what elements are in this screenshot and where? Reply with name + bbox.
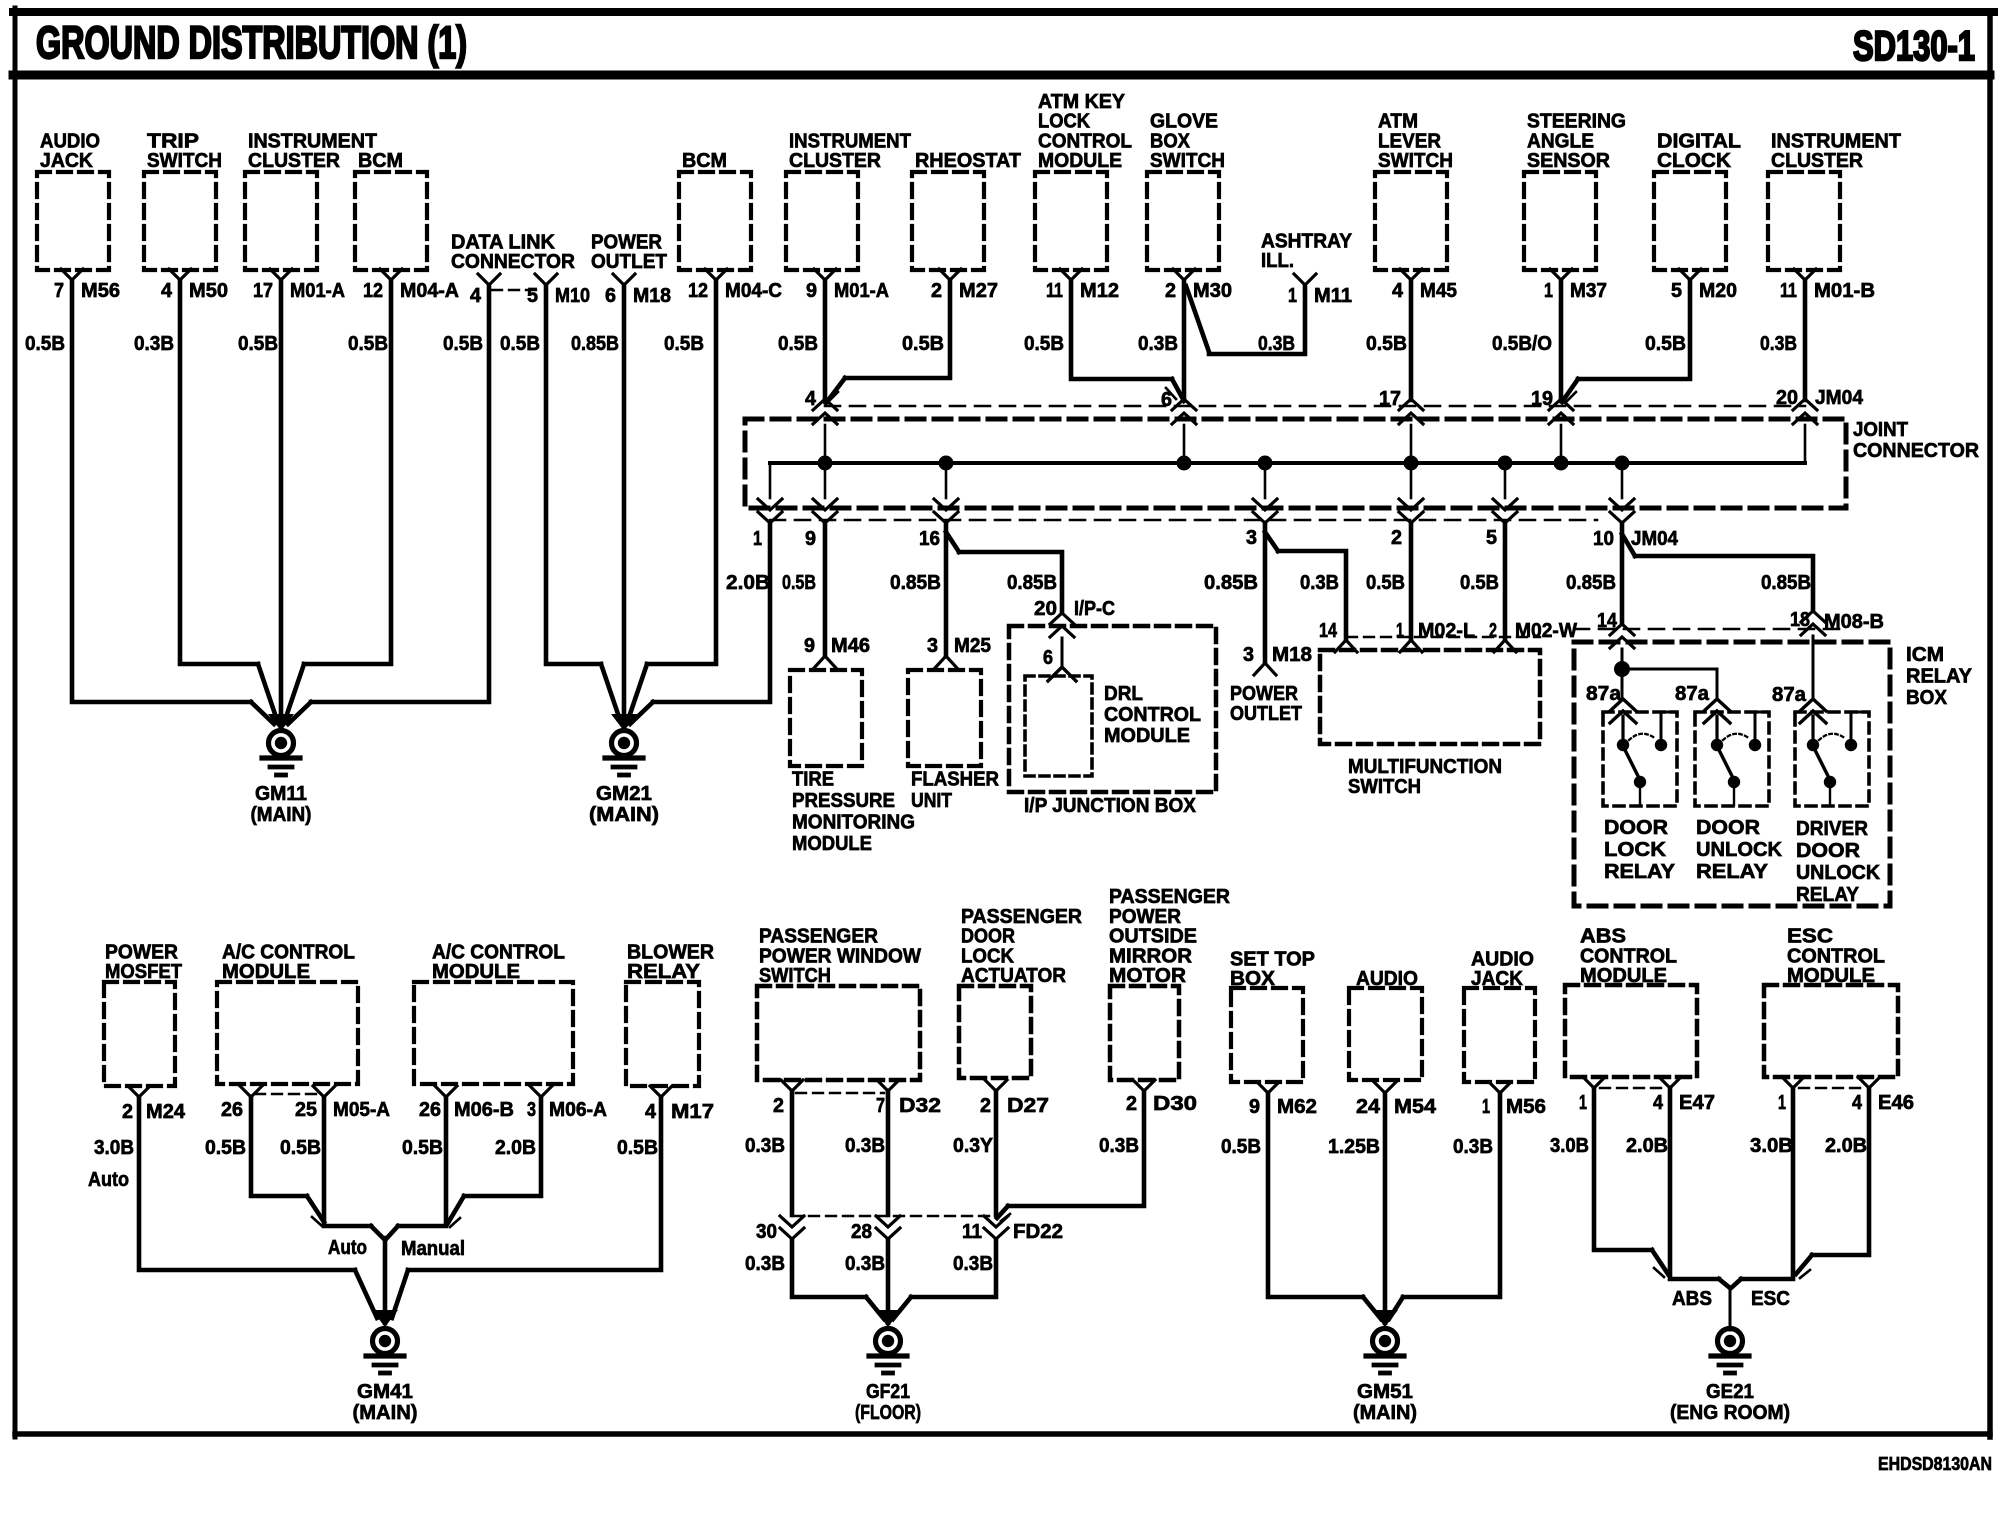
svg-text:4: 4 xyxy=(1852,1091,1863,1114)
svg-text:RHEOSTAT: RHEOSTAT xyxy=(915,149,1021,172)
svg-text:CONNECTOR: CONNECTOR xyxy=(451,250,575,273)
svg-text:9: 9 xyxy=(1249,1095,1260,1118)
svg-text:JM04: JM04 xyxy=(1815,386,1864,409)
svg-text:DOOR: DOOR xyxy=(1604,816,1668,839)
svg-text:M18: M18 xyxy=(1272,643,1312,666)
svg-text:RELAY: RELAY xyxy=(627,960,700,983)
svg-text:BCM: BCM xyxy=(682,149,727,172)
svg-text:M27: M27 xyxy=(959,279,998,302)
svg-text:Auto: Auto xyxy=(328,1236,367,1259)
svg-text:ILL.: ILL. xyxy=(1261,249,1294,272)
svg-text:M37: M37 xyxy=(1570,279,1607,302)
svg-text:ICM: ICM xyxy=(1906,643,1944,666)
svg-text:CLUSTER: CLUSTER xyxy=(789,149,881,172)
svg-text:7: 7 xyxy=(54,279,64,302)
svg-text:0.5B: 0.5B xyxy=(1024,332,1064,355)
svg-text:26: 26 xyxy=(419,1098,441,1121)
svg-text:7: 7 xyxy=(876,1094,885,1117)
svg-text:1: 1 xyxy=(1579,1091,1587,1114)
svg-text:0.5B: 0.5B xyxy=(617,1136,658,1159)
svg-text:UNLOCK: UNLOCK xyxy=(1796,861,1880,884)
svg-text:BCM: BCM xyxy=(358,149,403,172)
svg-text:RELAY: RELAY xyxy=(1696,860,1768,883)
svg-text:20: 20 xyxy=(1776,386,1798,409)
svg-text:(MAIN): (MAIN) xyxy=(251,803,312,826)
svg-text:RELAY: RELAY xyxy=(1906,665,1972,688)
svg-text:0.3B: 0.3B xyxy=(1300,571,1339,594)
svg-text:0.3B: 0.3B xyxy=(845,1252,885,1275)
svg-text:4: 4 xyxy=(1653,1091,1664,1114)
svg-text:M02-L: M02-L xyxy=(1418,619,1475,642)
svg-text:JACK: JACK xyxy=(1471,967,1523,990)
svg-text:0.5B: 0.5B xyxy=(1366,571,1405,594)
svg-text:87a: 87a xyxy=(1586,682,1622,705)
svg-text:1: 1 xyxy=(753,527,762,550)
svg-text:E47: E47 xyxy=(1679,1091,1715,1114)
svg-text:M02-W: M02-W xyxy=(1515,619,1578,642)
svg-text:87a: 87a xyxy=(1675,682,1710,705)
svg-text:2.0B: 2.0B xyxy=(1825,1134,1867,1157)
svg-text:0.5B: 0.5B xyxy=(402,1136,443,1159)
svg-text:M06-A: M06-A xyxy=(549,1098,607,1121)
svg-text:0.85B: 0.85B xyxy=(1761,571,1811,594)
svg-text:M24: M24 xyxy=(146,1100,186,1123)
svg-text:SENSOR: SENSOR xyxy=(1527,149,1610,172)
svg-text:0.85B: 0.85B xyxy=(571,332,619,355)
svg-text:0.5B: 0.5B xyxy=(25,332,65,355)
svg-text:CONNECTOR: CONNECTOR xyxy=(1853,439,1979,462)
svg-text:0.5B: 0.5B xyxy=(238,332,278,355)
svg-text:3.0B: 3.0B xyxy=(1750,1134,1793,1157)
svg-text:ACTUATOR: ACTUATOR xyxy=(961,964,1066,987)
svg-text:9: 9 xyxy=(804,634,815,657)
svg-text:SWITCH: SWITCH xyxy=(759,964,831,987)
svg-text:I/P-C: I/P-C xyxy=(1074,597,1115,620)
svg-text:0.5B: 0.5B xyxy=(443,332,483,355)
svg-text:MODULE: MODULE xyxy=(1038,149,1122,172)
svg-text:M45: M45 xyxy=(1420,279,1457,302)
svg-text:12: 12 xyxy=(363,279,383,302)
svg-text:2: 2 xyxy=(1165,279,1176,302)
svg-text:10: 10 xyxy=(1593,527,1614,550)
svg-text:FLASHER: FLASHER xyxy=(911,768,999,791)
svg-text:2: 2 xyxy=(1489,619,1497,642)
svg-text:2.0B: 2.0B xyxy=(1626,1134,1668,1157)
svg-text:0.85B: 0.85B xyxy=(890,571,941,594)
svg-text:Manual: Manual xyxy=(401,1237,465,1260)
svg-text:GROUND DISTRIBUTION (1): GROUND DISTRIBUTION (1) xyxy=(36,17,467,68)
svg-text:MODULE: MODULE xyxy=(1580,964,1667,987)
svg-text:5: 5 xyxy=(1486,526,1497,549)
svg-text:E46: E46 xyxy=(1878,1091,1914,1114)
svg-text:D32: D32 xyxy=(899,1094,941,1117)
svg-text:ABS: ABS xyxy=(1672,1287,1712,1310)
svg-text:1.25B: 1.25B xyxy=(1328,1135,1380,1158)
svg-text:0.3B: 0.3B xyxy=(1760,332,1797,355)
svg-text:0.85B: 0.85B xyxy=(1566,571,1616,594)
svg-text:M01-A: M01-A xyxy=(834,279,889,302)
svg-text:14: 14 xyxy=(1319,619,1337,642)
svg-text:M06-B: M06-B xyxy=(454,1098,514,1121)
svg-text:M18: M18 xyxy=(633,284,671,307)
svg-text:1: 1 xyxy=(1482,1095,1490,1118)
svg-text:M56: M56 xyxy=(81,279,120,302)
svg-text:FD22: FD22 xyxy=(1013,1220,1063,1243)
svg-text:1: 1 xyxy=(1288,284,1297,307)
svg-text:0.5B: 0.5B xyxy=(1221,1135,1261,1158)
svg-text:5: 5 xyxy=(527,284,538,307)
svg-text:DRIVER: DRIVER xyxy=(1796,817,1868,840)
svg-text:6: 6 xyxy=(605,284,616,307)
svg-text:DOOR: DOOR xyxy=(1696,816,1760,839)
svg-text:3: 3 xyxy=(1243,643,1254,666)
svg-text:GM51: GM51 xyxy=(1357,1380,1413,1403)
svg-text:M11: M11 xyxy=(1314,284,1352,307)
svg-text:M05-A: M05-A xyxy=(333,1098,390,1121)
svg-text:JM04: JM04 xyxy=(1631,527,1679,550)
svg-text:0.3B: 0.3B xyxy=(134,332,174,355)
svg-text:87a: 87a xyxy=(1772,683,1807,706)
svg-text:0.3B: 0.3B xyxy=(1138,332,1178,355)
svg-text:3.0B: 3.0B xyxy=(1550,1134,1589,1157)
svg-text:AUDIO: AUDIO xyxy=(1356,967,1418,990)
svg-text:1: 1 xyxy=(1544,279,1553,302)
svg-text:0.5B: 0.5B xyxy=(348,332,388,355)
svg-text:DRL: DRL xyxy=(1104,682,1143,705)
svg-text:0.85B: 0.85B xyxy=(1204,571,1258,594)
svg-text:SWITCH: SWITCH xyxy=(147,149,222,172)
svg-text:(MAIN): (MAIN) xyxy=(1353,1401,1417,1424)
svg-text:0.5B: 0.5B xyxy=(1645,332,1686,355)
svg-text:11: 11 xyxy=(1780,279,1797,302)
svg-text:2: 2 xyxy=(1126,1092,1137,1115)
svg-text:MONITORING: MONITORING xyxy=(792,811,915,834)
svg-text:M04-C: M04-C xyxy=(725,279,782,302)
svg-text:4: 4 xyxy=(470,284,482,307)
svg-text:M56: M56 xyxy=(1506,1095,1546,1118)
svg-text:(ENG ROOM): (ENG ROOM) xyxy=(1670,1401,1790,1424)
svg-text:2.0B: 2.0B xyxy=(495,1136,536,1159)
svg-text:19: 19 xyxy=(1531,387,1553,410)
svg-text:SWITCH: SWITCH xyxy=(1150,149,1225,172)
svg-text:ESC: ESC xyxy=(1751,1287,1790,1310)
svg-text:0.5B: 0.5B xyxy=(280,1136,321,1159)
svg-text:OUTLET: OUTLET xyxy=(591,250,667,273)
svg-text:RELAY: RELAY xyxy=(1796,883,1859,906)
svg-text:MODULE: MODULE xyxy=(432,960,520,983)
svg-text:5: 5 xyxy=(1671,279,1682,302)
svg-text:GM11: GM11 xyxy=(255,782,307,805)
svg-text:6: 6 xyxy=(1161,388,1172,411)
svg-text:2: 2 xyxy=(931,279,942,302)
svg-text:CLUSTER: CLUSTER xyxy=(1771,149,1863,172)
svg-text:M25: M25 xyxy=(954,634,991,657)
svg-text:3: 3 xyxy=(527,1098,536,1121)
svg-text:9: 9 xyxy=(805,527,816,550)
svg-text:M62: M62 xyxy=(1277,1095,1317,1118)
svg-text:MOSFET: MOSFET xyxy=(105,960,182,983)
svg-text:28: 28 xyxy=(851,1220,872,1243)
svg-text:MODULE: MODULE xyxy=(792,832,872,855)
svg-text:9: 9 xyxy=(806,279,817,302)
svg-text:2.0B: 2.0B xyxy=(726,571,770,594)
svg-text:11: 11 xyxy=(962,1220,982,1243)
svg-text:M12: M12 xyxy=(1080,279,1119,302)
svg-text:1: 1 xyxy=(1778,1091,1786,1114)
svg-text:0.5B: 0.5B xyxy=(664,332,704,355)
svg-text:0.3Y: 0.3Y xyxy=(953,1134,993,1157)
svg-text:UNIT: UNIT xyxy=(911,789,952,812)
svg-text:(MAIN): (MAIN) xyxy=(353,1401,418,1424)
svg-text:M01-A: M01-A xyxy=(290,279,345,302)
svg-text:4: 4 xyxy=(805,387,817,410)
svg-text:0.5B: 0.5B xyxy=(902,332,944,355)
svg-text:0.5B: 0.5B xyxy=(782,571,816,594)
svg-text:GM21: GM21 xyxy=(596,782,652,805)
svg-text:SWITCH: SWITCH xyxy=(1378,149,1453,172)
svg-text:DOOR: DOOR xyxy=(1796,839,1860,862)
svg-text:0.3B: 0.3B xyxy=(1258,332,1295,355)
svg-text:0.3B: 0.3B xyxy=(1099,1134,1139,1157)
svg-text:SD130-1: SD130-1 xyxy=(1853,22,1975,69)
svg-text:GM41: GM41 xyxy=(357,1380,413,1403)
svg-text:0.3B: 0.3B xyxy=(745,1134,785,1157)
svg-text:1: 1 xyxy=(1396,619,1404,642)
svg-text:BOX: BOX xyxy=(1230,967,1275,990)
svg-text:0.5B: 0.5B xyxy=(1460,571,1499,594)
svg-text:0.5B: 0.5B xyxy=(500,332,540,355)
svg-text:M54: M54 xyxy=(1394,1095,1437,1118)
svg-text:16: 16 xyxy=(919,527,940,550)
svg-text:UNLOCK: UNLOCK xyxy=(1696,838,1782,861)
svg-text:MODULE: MODULE xyxy=(1104,724,1190,747)
svg-text:26: 26 xyxy=(221,1098,243,1121)
svg-text:30: 30 xyxy=(756,1220,777,1243)
svg-text:11: 11 xyxy=(1046,279,1063,302)
svg-text:LOCK: LOCK xyxy=(1604,838,1666,861)
svg-text:4: 4 xyxy=(161,279,173,302)
svg-text:OUTLET: OUTLET xyxy=(1230,702,1302,725)
svg-text:20: 20 xyxy=(1034,597,1057,620)
svg-text:JOINT: JOINT xyxy=(1853,418,1908,441)
svg-text:MODULE: MODULE xyxy=(222,960,310,983)
svg-text:M04-A: M04-A xyxy=(400,279,459,302)
svg-text:4: 4 xyxy=(645,1100,657,1123)
svg-text:2: 2 xyxy=(980,1094,991,1117)
svg-text:SWITCH: SWITCH xyxy=(1348,775,1421,798)
svg-text:3: 3 xyxy=(1246,526,1257,549)
svg-text:0.3B: 0.3B xyxy=(953,1252,993,1275)
svg-text:0.3B: 0.3B xyxy=(1453,1135,1493,1158)
svg-text:17: 17 xyxy=(253,279,273,302)
svg-text:24: 24 xyxy=(1356,1095,1381,1118)
svg-text:EHDSD8130AN: EHDSD8130AN xyxy=(1878,1454,1992,1474)
svg-text:25: 25 xyxy=(295,1098,317,1121)
svg-text:PRESSURE: PRESSURE xyxy=(792,789,895,812)
svg-text:D27: D27 xyxy=(1007,1094,1049,1117)
svg-text:CLOCK: CLOCK xyxy=(1657,149,1731,172)
svg-text:0.5B: 0.5B xyxy=(1366,332,1407,355)
svg-text:2: 2 xyxy=(122,1100,133,1123)
svg-text:M46: M46 xyxy=(831,634,870,657)
svg-text:MOTOR: MOTOR xyxy=(1109,964,1186,987)
svg-text:17: 17 xyxy=(1379,387,1401,410)
svg-text:D30: D30 xyxy=(1153,1092,1197,1115)
svg-text:(MAIN): (MAIN) xyxy=(589,803,659,826)
svg-text:0.85B: 0.85B xyxy=(1007,571,1057,594)
svg-text:(FLOOR): (FLOOR) xyxy=(855,1401,921,1424)
svg-text:0.5B: 0.5B xyxy=(205,1136,246,1159)
svg-text:I/P JUNCTION BOX: I/P JUNCTION BOX xyxy=(1024,794,1196,817)
svg-text:12: 12 xyxy=(688,279,708,302)
svg-text:3: 3 xyxy=(927,634,938,657)
svg-text:M17: M17 xyxy=(671,1100,714,1123)
svg-text:JACK: JACK xyxy=(40,149,93,172)
svg-text:4: 4 xyxy=(1392,279,1404,302)
svg-text:0.3B: 0.3B xyxy=(845,1134,885,1157)
svg-text:TIRE: TIRE xyxy=(792,768,834,791)
svg-text:3.0B: 3.0B xyxy=(94,1136,134,1159)
svg-text:GF21: GF21 xyxy=(866,1380,910,1403)
svg-text:BOX: BOX xyxy=(1906,686,1947,709)
svg-text:Auto: Auto xyxy=(88,1168,129,1191)
svg-text:CONTROL: CONTROL xyxy=(1104,703,1201,726)
svg-text:2: 2 xyxy=(1391,526,1402,549)
svg-text:0.5B: 0.5B xyxy=(778,332,818,355)
svg-text:M10: M10 xyxy=(555,284,590,307)
svg-text:M30: M30 xyxy=(1193,279,1232,302)
svg-text:6: 6 xyxy=(1043,646,1053,669)
svg-text:MODULE: MODULE xyxy=(1787,964,1875,987)
svg-text:M01-B: M01-B xyxy=(1814,279,1875,302)
svg-text:0.3B: 0.3B xyxy=(745,1252,785,1275)
svg-text:M20: M20 xyxy=(1699,279,1737,302)
svg-text:0.5B/O: 0.5B/O xyxy=(1492,332,1552,355)
svg-text:RELAY: RELAY xyxy=(1604,860,1675,883)
svg-text:GE21: GE21 xyxy=(1706,1380,1754,1403)
svg-text:CLUSTER: CLUSTER xyxy=(248,149,340,172)
svg-text:M50: M50 xyxy=(189,279,228,302)
svg-text:2: 2 xyxy=(773,1094,784,1117)
